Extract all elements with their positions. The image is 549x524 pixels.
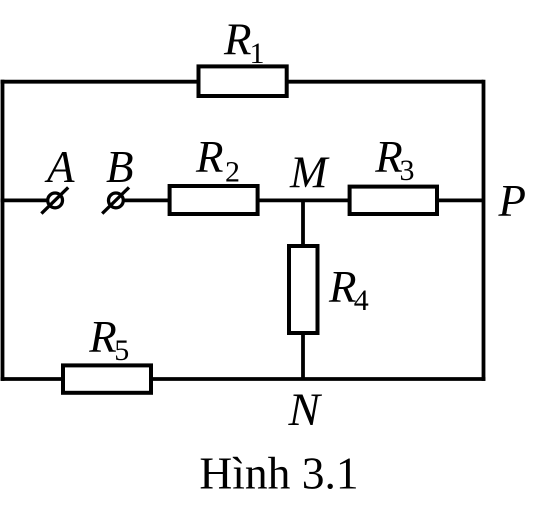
- svg-text:4: 4: [354, 284, 369, 317]
- svg-text:Hình 3.1: Hình 3.1: [199, 448, 358, 499]
- label R5: [88, 312, 129, 367]
- wire: right vertical border: [482, 80, 486, 381]
- wire: bottom horizontal: [1, 377, 486, 381]
- wire: left vertical border: [1, 80, 5, 381]
- svg-text:N: N: [288, 384, 323, 436]
- svg-text:A: A: [44, 142, 75, 192]
- wire: R4 down to bottom wire (node N): [301, 334, 305, 379]
- svg-text:M: M: [289, 148, 330, 198]
- wire: middle row, terminal B to right border: [124, 198, 484, 202]
- svg-text:P: P: [498, 176, 527, 226]
- wire: top horizontal: [1, 80, 484, 84]
- resistor R1: [199, 66, 287, 96]
- svg-text:R: R: [195, 132, 224, 182]
- svg-text:1: 1: [250, 37, 265, 70]
- wire: middle row, left border to terminal A: [1, 198, 47, 202]
- svg-text:R: R: [88, 312, 117, 362]
- svg-text:2: 2: [225, 156, 240, 189]
- label R1: [223, 14, 265, 70]
- resistor R4: [289, 246, 318, 333]
- svg-text:R: R: [223, 14, 252, 64]
- svg-text:5: 5: [114, 334, 129, 367]
- label R4: [328, 262, 369, 317]
- svg-text:3: 3: [400, 154, 415, 187]
- resistor R3: [350, 187, 437, 214]
- svg-text:R: R: [328, 262, 357, 312]
- resistor R5: [63, 365, 151, 392]
- label R2: [195, 132, 240, 188]
- svg-text:B: B: [106, 142, 134, 192]
- wire: node M down to R4: [301, 200, 305, 246]
- label R3: [374, 132, 414, 187]
- terminal B (open circle with slash): [102, 187, 129, 213]
- terminal A (open circle with slash): [41, 187, 68, 213]
- resistor R2: [170, 186, 258, 214]
